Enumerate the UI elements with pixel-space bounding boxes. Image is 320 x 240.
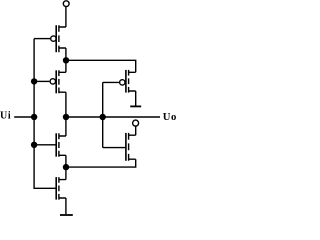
VDD terminal (top): [63, 1, 69, 7]
junction output/feedback: [100, 114, 106, 120]
wire Ui lead: [14, 116, 34, 118]
svg-text:Ui: Ui: [0, 111, 11, 122]
junction rail/T4 gate: [31, 142, 37, 148]
node B junction: [63, 164, 69, 170]
wire T1 source to node A: [65, 48, 67, 60]
wire left input rail: [34, 39, 56, 189]
node A junction: [63, 57, 69, 63]
ground (T3): [130, 105, 141, 107]
wire T4 drain to output node: [65, 117, 67, 136]
svg-text:Uo: Uo: [163, 111, 177, 123]
transistor T5 (NMOS feedback right): [126, 133, 136, 161]
wire VDD to T1 drain: [65, 7, 67, 27]
wire node A to T2 source: [65, 60, 67, 72]
transistor T1 (PMOS top-left): [51, 25, 66, 52]
transistor T3 (PMOS feedback right): [120, 70, 136, 93]
wire VDD to T5 drain: [135, 126, 137, 135]
wire T2 gate to rail: [34, 80, 49, 82]
transistor T6 (NMOS bottom-left): [56, 177, 66, 200]
junction rail/T2 gate: [31, 78, 37, 84]
wire T3 gate to output node: [103, 81, 119, 83]
wire node A to T3 source: [66, 60, 136, 72]
wire T5 source to node B: [66, 159, 136, 167]
junction rail/Ui: [31, 114, 37, 120]
wire T3 drain to ground: [135, 91, 137, 106]
wire node B to T6 drain: [65, 167, 67, 180]
transistor T4 (NMOS mid-left): [56, 133, 66, 156]
wire T4 gate to rail: [34, 144, 56, 146]
transistor T2 (PMOS mid-left): [50, 70, 66, 93]
wire output line to Uo: [66, 116, 160, 118]
wire T5 gate to feedback line: [103, 147, 126, 149]
junction output/T2/T4: [63, 114, 69, 120]
wire T4 source to node B: [65, 155, 67, 167]
wire T6 source to ground: [65, 198, 67, 214]
ground (T6): [60, 214, 73, 216]
wire T1 gate to left rail: [34, 38, 50, 40]
wire T2 drain to output node: [65, 92, 67, 117]
VDD terminal (at T5 drain): [133, 120, 139, 126]
wire feedback gates vertical: [102, 82, 104, 147]
